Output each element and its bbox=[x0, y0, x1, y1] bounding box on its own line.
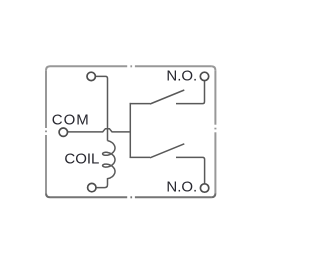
right edge dot bbox=[214, 128, 216, 130]
bottom-left corner bbox=[46, 193, 50, 197]
wire: coil top lead bbox=[95, 76, 107, 140]
top edge dot bbox=[130, 65, 132, 67]
switch 1 pole arm bbox=[130, 103, 150, 105]
terminal: N.O. top pin bbox=[200, 72, 208, 80]
top edge dash left bbox=[50, 65, 127, 67]
wire: switch bus vertical bbox=[129, 103, 131, 158]
terminal: COM pin bbox=[59, 128, 67, 136]
coil L1 bbox=[96, 141, 115, 188]
switch 2 pole arm bbox=[130, 156, 150, 158]
terminal: coil top pin bbox=[87, 72, 95, 80]
bottom edge dash right bbox=[135, 196, 212, 198]
svg-text:COM: COM bbox=[52, 112, 90, 129]
left edge dash top bbox=[45, 70, 47, 128]
top edge dash right bbox=[135, 65, 212, 67]
switch 2 blade bbox=[150, 144, 184, 158]
terminal: N.O. bottom pin bbox=[200, 184, 208, 192]
left edge dash bottom bbox=[45, 135, 47, 193]
switch 1 fixed contact bbox=[176, 81, 205, 104]
bottom edge dot bbox=[130, 196, 132, 198]
switch 1 blade bbox=[150, 90, 184, 104]
svg-text:N.O.: N.O. bbox=[166, 179, 197, 196]
relay body outline (dash-dot rounded rect) bbox=[46, 66, 215, 197]
switch 2 fixed contact bbox=[176, 157, 205, 183]
right edge dash bottom bbox=[214, 132, 216, 193]
svg-text:N.O.: N.O. bbox=[166, 67, 197, 84]
wire: COM lead with hop over coil wire bbox=[68, 129, 130, 132]
svg-text:COIL: COIL bbox=[64, 151, 99, 168]
right edge dash top bbox=[214, 70, 216, 124]
top-right corner bbox=[211, 66, 215, 70]
top-left corner bbox=[46, 66, 50, 70]
bottom-right corner bbox=[211, 193, 215, 197]
left edge dot bbox=[45, 131, 47, 133]
bottom edge dash left bbox=[50, 196, 127, 198]
terminal: coil bottom pin bbox=[88, 183, 96, 191]
